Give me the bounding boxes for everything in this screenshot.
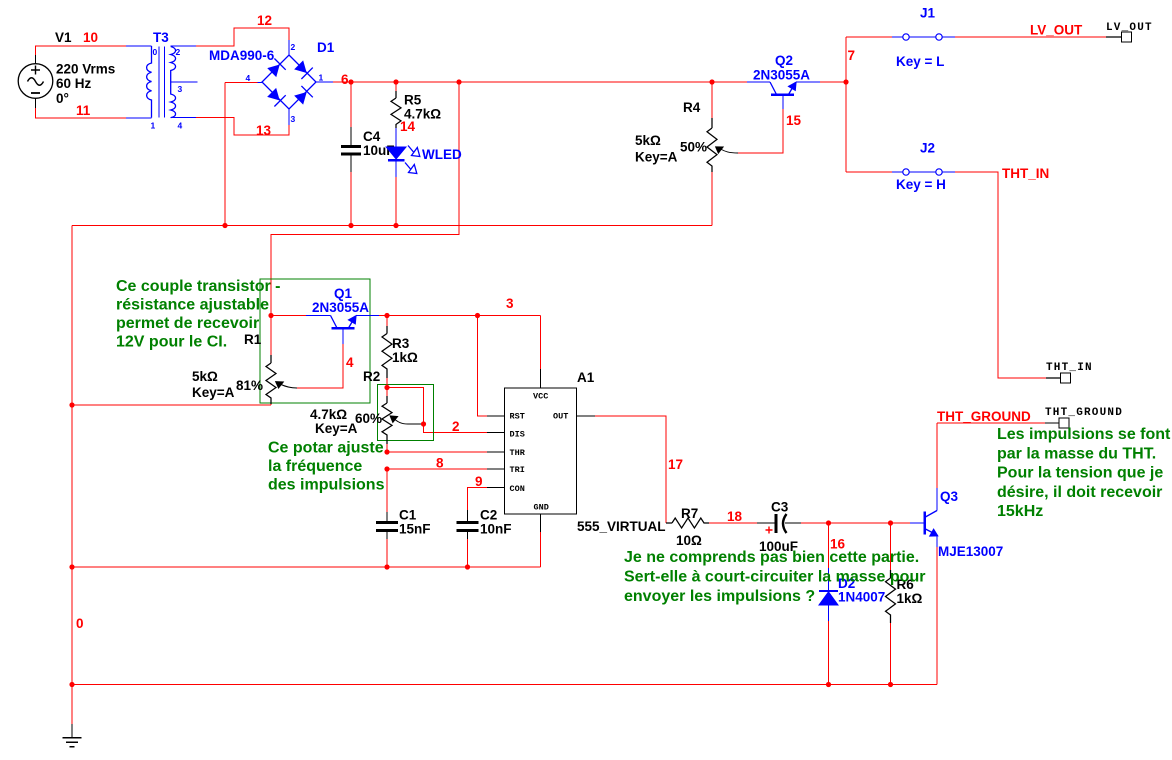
diode bridge D1	[262, 55, 316, 109]
svg-text:15: 15	[786, 113, 802, 128]
svg-text:15nF: 15nF	[399, 522, 431, 537]
svg-text:WLED: WLED	[422, 147, 462, 162]
wire net 18 R7 to C3	[709, 522, 757, 524]
resistor R7	[666, 518, 709, 528]
svg-text:Les impulsions se font: Les impulsions se font	[997, 426, 1171, 443]
svg-text:60%: 60%	[355, 411, 382, 426]
svg-text:R3: R3	[392, 336, 410, 351]
terminal THT_GROUND	[1059, 418, 1069, 428]
wire net 8 THR	[387, 451, 505, 453]
wire GND pin to rail	[540, 514, 542, 567]
svg-text:10Ω: 10Ω	[676, 533, 702, 548]
wire ground rail bottom y684	[72, 684, 937, 686]
svg-text:0: 0	[76, 616, 84, 631]
svg-text:R1: R1	[244, 332, 262, 347]
capacitor C3 polarized	[757, 514, 801, 534]
svg-text:A1: A1	[577, 370, 595, 385]
svg-text:1kΩ: 1kΩ	[392, 350, 418, 365]
transistor Q3	[925, 488, 939, 547]
wire net THT_GROUND Q3 collector	[937, 423, 1059, 488]
potentiometer R2	[382, 388, 398, 453]
svg-text:Key = L: Key = L	[896, 54, 944, 69]
wire net 10 V1 top to T3	[36, 46, 152, 64]
svg-text:par la masse du THT.: par la masse du THT.	[997, 446, 1156, 463]
svg-text:10nF: 10nF	[480, 522, 512, 537]
svg-text:11: 11	[76, 103, 91, 118]
svg-text:GND: GND	[534, 503, 549, 513]
wire ground rail y567	[72, 566, 541, 568]
wire net 15 Q2 base to R4 wiper	[721, 109, 784, 153]
svg-text:THT_GROUND: THT_GROUND	[1045, 407, 1123, 419]
transistor Q1	[306, 316, 379, 345]
wire net 2 R2 wiper loop to DIS	[387, 388, 505, 433]
wire net 4 Q1 base to R1 wiper	[280, 344, 343, 388]
svg-text:2: 2	[291, 42, 296, 52]
svg-text:T3: T3	[153, 30, 169, 45]
svg-text:2: 2	[452, 419, 460, 434]
svg-text:R5: R5	[404, 93, 422, 108]
svg-text:envoyer les impulsions ?: envoyer les impulsions ?	[624, 588, 815, 605]
wire net 6 branch down to Q1 collector	[271, 82, 459, 316]
source V1	[18, 64, 53, 99]
svg-text:4.7kΩ: 4.7kΩ	[310, 407, 347, 422]
svg-text:10: 10	[83, 30, 98, 45]
svg-text:50%: 50%	[680, 140, 707, 155]
switch J2	[892, 169, 955, 175]
svg-text:DIS: DIS	[510, 430, 525, 440]
wire net 7 Q2 emitter to J1/J2	[820, 37, 892, 172]
diode D2	[819, 523, 838, 685]
svg-text:2: 2	[176, 47, 181, 57]
resistor R5	[391, 82, 401, 128]
svg-text:Sert-elle à court-circuiter la: Sert-elle à court-circuiter la masse pou…	[624, 569, 925, 586]
svg-text:17: 17	[668, 457, 683, 472]
svg-text:Q3: Q3	[940, 489, 959, 504]
svg-text:RST: RST	[510, 412, 525, 422]
svg-text:la fréquence: la fréquence	[268, 458, 362, 475]
svg-text:Key=A: Key=A	[315, 421, 358, 436]
potentiometer R1	[266, 316, 284, 406]
svg-text:THR: THR	[510, 448, 526, 458]
wire net 6 main horizontal	[316, 81, 747, 83]
wire net LV_OUT after J1	[955, 36, 1106, 38]
wire net 8 TRI	[387, 468, 505, 470]
svg-text:18: 18	[727, 509, 743, 524]
svg-text:désire, il doit recevoir: désire, il doit recevoir	[997, 484, 1162, 501]
svg-text:C4: C4	[363, 129, 381, 144]
svg-text:7: 7	[848, 48, 856, 63]
svg-text:OUT: OUT	[553, 412, 568, 422]
wire net 17 OUT to R7	[577, 416, 667, 523]
svg-text:J1: J1	[920, 6, 936, 21]
wire ground rail y405	[72, 404, 271, 406]
svg-text:V1: V1	[55, 30, 72, 45]
svg-text:J2: J2	[920, 141, 935, 156]
resistor R3	[382, 316, 392, 388]
svg-text:0°: 0°	[56, 91, 69, 106]
wire net 13 T3 sec bottom to bridge pin3	[171, 109, 289, 135]
svg-text:4: 4	[178, 121, 183, 131]
capacitor C1	[376, 469, 398, 567]
svg-text:81%: 81%	[236, 378, 263, 393]
svg-text:3: 3	[178, 84, 183, 94]
capacitor C4	[341, 82, 361, 226]
svg-text:C3: C3	[771, 500, 789, 515]
svg-text:555_VIRTUAL: 555_VIRTUAL	[577, 519, 666, 534]
svg-text:D1: D1	[317, 40, 335, 55]
wire net 11 V1 bottom to T3	[36, 99, 152, 119]
IC A1 555 timer	[505, 388, 577, 514]
svg-text:Q1: Q1	[334, 286, 353, 301]
svg-text:CON: CON	[510, 484, 525, 494]
svg-text:1kΩ: 1kΩ	[897, 591, 923, 606]
svg-text:R2: R2	[363, 369, 380, 384]
svg-text:13: 13	[256, 123, 272, 138]
svg-text:C2: C2	[480, 508, 497, 523]
wire net THT_IN after J2	[955, 172, 1046, 378]
svg-text:4: 4	[246, 73, 251, 83]
svg-text:4: 4	[346, 355, 354, 370]
svg-text:LV_OUT: LV_OUT	[1030, 23, 1083, 38]
svg-text:1N4007: 1N4007	[838, 590, 885, 605]
svg-text:3: 3	[506, 296, 514, 311]
svg-text:5kΩ: 5kΩ	[192, 369, 218, 384]
wire net 16 C3 to Q3 base	[801, 522, 924, 524]
LED WLED	[386, 128, 420, 226]
svg-text:14: 14	[400, 119, 416, 134]
svg-text:des impulsions: des impulsions	[268, 477, 385, 494]
svg-text:THT_IN: THT_IN	[1046, 362, 1093, 374]
potentiometer R4	[707, 82, 723, 226]
svg-text:220 Vrms: 220 Vrms	[56, 62, 115, 77]
svg-text:MDA990-6: MDA990-6	[209, 48, 275, 63]
svg-text:THT_GROUND: THT_GROUND	[937, 409, 1031, 424]
svg-text:MJE13007: MJE13007	[938, 544, 1003, 559]
svg-text:15kHz: 15kHz	[997, 503, 1043, 520]
svg-text:6: 6	[341, 72, 349, 87]
svg-text:0: 0	[153, 47, 158, 57]
wire Q3 emitter to ground rail	[936, 547, 938, 685]
svg-text:Je ne comprends pas bien cette: Je ne comprends pas bien cette partie.	[624, 549, 919, 566]
svg-text:5kΩ: 5kΩ	[635, 133, 661, 148]
transistor Q2	[747, 82, 820, 109]
svg-text:permet de recevoir: permet de recevoir	[116, 315, 259, 332]
svg-text:12V pour le CI.: 12V pour le CI.	[116, 334, 227, 351]
wire net 12 T3 sec top to bridge pin2	[171, 28, 289, 55]
terminal LV_OUT	[1106, 32, 1132, 42]
svg-text:LV_OUT: LV_OUT	[1106, 22, 1153, 34]
svg-text:8: 8	[436, 456, 444, 471]
wire bridge pin4 to ground rail	[225, 83, 262, 226]
svg-text:Key=A: Key=A	[635, 150, 678, 165]
svg-text:60 Hz: 60 Hz	[56, 76, 92, 91]
resistor R6	[886, 523, 896, 685]
svg-text:C1: C1	[399, 508, 417, 523]
svg-text:2N3055A: 2N3055A	[312, 300, 369, 315]
green annotation box 1	[260, 279, 370, 403]
svg-text:Key = H: Key = H	[896, 177, 946, 192]
svg-text:Pour la tension que je: Pour la tension que je	[997, 465, 1163, 482]
svg-text:R4: R4	[683, 100, 701, 115]
svg-text:9: 9	[475, 474, 483, 489]
transformer T3	[147, 46, 198, 118]
svg-text:résistance ajustable: résistance ajustable	[116, 297, 269, 314]
svg-text:Ce potar ajuste: Ce potar ajuste	[268, 440, 384, 457]
wire net 3 Q1 emitter to VCC/RST	[379, 316, 541, 417]
capacitor C2	[457, 510, 479, 567]
wire ground rail top y225	[72, 225, 712, 227]
wire ground left rail	[71, 226, 73, 725]
svg-text:3: 3	[291, 114, 296, 124]
svg-text:1: 1	[151, 121, 156, 131]
green annotation box 2	[378, 385, 434, 441]
svg-text:R7: R7	[681, 506, 698, 521]
svg-text:12: 12	[257, 13, 272, 28]
ground symbol node 0	[63, 724, 82, 747]
svg-text:1: 1	[319, 73, 324, 83]
terminal THT_IN	[1046, 373, 1071, 383]
svg-text:Ce couple transistor -: Ce couple transistor -	[116, 278, 280, 295]
svg-text:THT_IN: THT_IN	[1002, 166, 1049, 181]
svg-text:Key=A: Key=A	[192, 385, 235, 400]
svg-text:VCC: VCC	[533, 392, 548, 402]
switch J1	[892, 34, 955, 40]
svg-text:TRI: TRI	[510, 465, 525, 475]
wire net 9 CON to C2	[468, 488, 505, 511]
svg-text:Q2: Q2	[775, 53, 793, 68]
svg-text:2N3055A: 2N3055A	[753, 68, 810, 83]
